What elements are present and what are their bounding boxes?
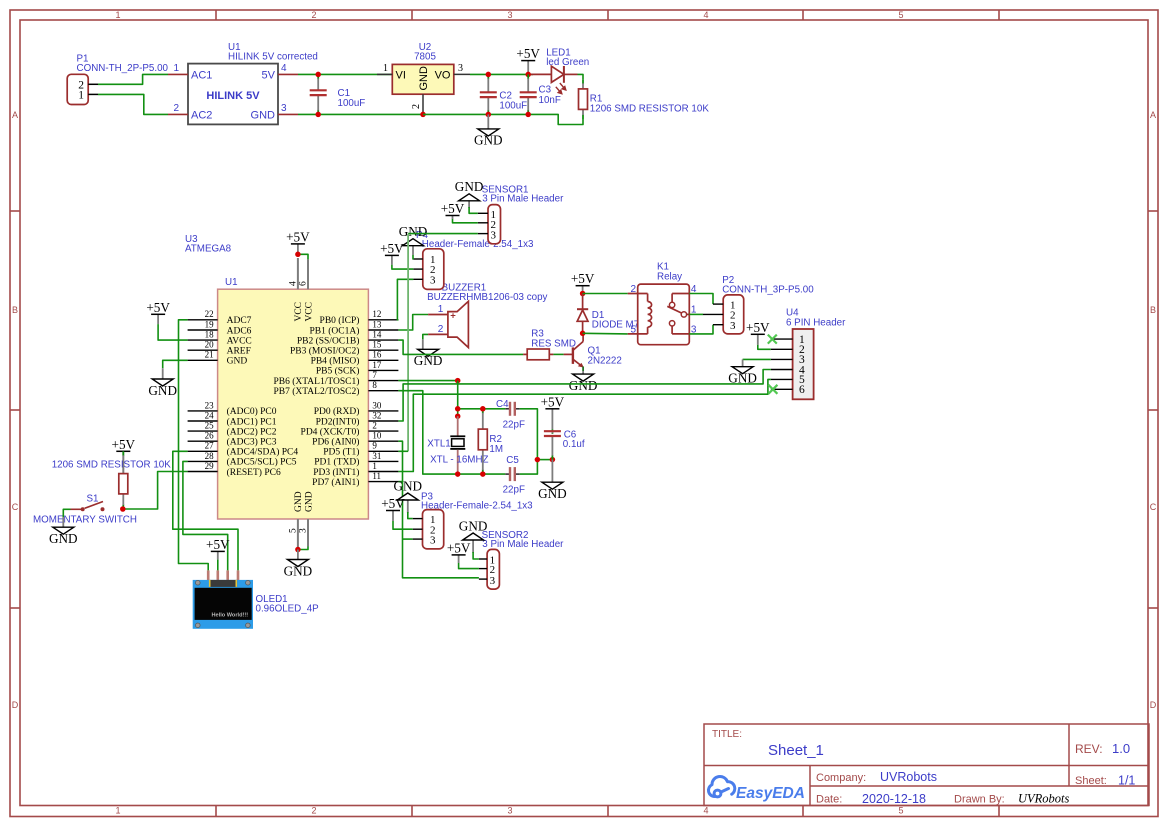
wire RESET pin29 to S1	[123, 472, 188, 510]
regulator module U1	[168, 63, 298, 124]
svg-text:30: 30	[372, 400, 382, 410]
svg-text:22: 22	[205, 309, 214, 319]
no-connect cross U4 pin6	[768, 385, 777, 394]
wire U1.GND rail	[298, 113, 423, 115]
svg-text:PB7 (XTAL2/TOSC2): PB7 (XTAL2/TOSC2)	[274, 386, 360, 397]
ground flag SENSOR2	[459, 518, 488, 553]
svg-text:2: 2	[311, 10, 316, 20]
svg-text:D: D	[1150, 700, 1157, 710]
svg-text:1: 1	[115, 806, 120, 816]
svg-text:12: 12	[372, 309, 381, 319]
no-connect cross U4 pin1	[768, 335, 777, 344]
power flag +5V D1	[571, 271, 595, 293]
svg-text:1: 1	[383, 63, 388, 74]
svg-text:REV:: REV:	[1075, 742, 1103, 756]
connector SENSOR2	[479, 549, 500, 589]
svg-text:A: A	[1150, 110, 1156, 120]
wire buzzer pin2 to gnd	[423, 334, 428, 339]
svg-text:3: 3	[299, 528, 309, 533]
ground flag pin21	[148, 368, 177, 398]
svg-text:15: 15	[372, 340, 382, 350]
svg-text:PD0 (RXD): PD0 (RXD)	[314, 406, 360, 417]
resistor R1	[579, 79, 588, 119]
wire gnd rail right	[423, 114, 583, 124]
svg-text:MOMENTARY SWITCH: MOMENTARY SWITCH	[33, 515, 137, 526]
regulator U2	[377, 63, 470, 114]
svg-text:PB0 (ICP): PB0 (ICP)	[320, 315, 360, 326]
svg-text:VCC: VCC	[305, 302, 315, 322]
svg-text:4: 4	[288, 281, 298, 286]
svg-text:XTL - 16MHZ: XTL - 16MHZ	[430, 454, 488, 465]
svg-text:HILINK 5V: HILINK 5V	[206, 90, 260, 102]
junction R2 bottom	[480, 471, 486, 477]
LED LED1	[531, 66, 578, 94]
ground flag P3	[394, 478, 423, 513]
svg-text:27: 27	[205, 441, 215, 451]
svg-text:C: C	[1150, 502, 1157, 512]
svg-text:1: 1	[78, 90, 84, 102]
svg-text:19: 19	[205, 319, 215, 329]
wire PB0 pin12 to P4 pin3	[397, 279, 413, 320]
junction C1 top	[315, 72, 321, 78]
svg-text:PD5 (T1): PD5 (T1)	[323, 447, 359, 458]
wire C4 right down to C5	[520, 409, 538, 474]
connector P2	[703, 295, 744, 334]
svg-text:VCC: VCC	[294, 302, 304, 322]
svg-text:3 Pin Male Header: 3 Pin Male Header	[482, 539, 564, 550]
svg-text:AC1: AC1	[191, 70, 212, 82]
svg-text:Company:: Company:	[816, 772, 866, 784]
connector P4	[413, 249, 444, 290]
svg-text:led Green: led Green	[546, 57, 589, 68]
svg-text:4: 4	[703, 10, 708, 20]
wire GND pin21	[163, 360, 188, 368]
svg-text:GND: GND	[399, 224, 428, 239]
svg-text:2: 2	[630, 284, 636, 295]
power flag +5V OLED	[206, 537, 230, 560]
wire PB7 pin8 to xtal bottom	[398, 391, 457, 474]
svg-text:20: 20	[205, 340, 215, 350]
svg-text:6: 6	[299, 281, 309, 286]
switch S1	[71, 502, 105, 512]
svg-text:GND: GND	[414, 353, 443, 368]
wire SCL pin28 to OLED pin3	[183, 461, 228, 570]
ground flag C6	[538, 460, 567, 501]
svg-text:+5V: +5V	[381, 496, 405, 511]
wire relay pin3 to P2 pin3	[689, 325, 713, 334]
svg-text:3: 3	[430, 534, 436, 546]
svg-text:+5V: +5V	[146, 300, 170, 315]
power flag +5V SENSOR1	[441, 201, 465, 219]
svg-text:RES SMD: RES SMD	[531, 338, 576, 349]
ground flag SENSOR1	[455, 179, 484, 208]
wire pin7 down to xtal top	[457, 381, 459, 417]
svg-text:HILINK 5V corrected: HILINK 5V corrected	[228, 52, 318, 63]
svg-text:+5V: +5V	[380, 241, 404, 256]
svg-text:C5: C5	[506, 455, 519, 466]
svg-text:PB1 (OC1A): PB1 (OC1A)	[310, 325, 360, 336]
svg-text:PD3 (INT1): PD3 (INT1)	[313, 467, 359, 478]
svg-text:1206 SMD RESISTOR 10K: 1206 SMD RESISTOR 10K	[590, 104, 710, 115]
wire gnd to P3 pin1	[408, 512, 413, 519]
transistor Q1	[564, 333, 584, 371]
svg-text:22pF: 22pF	[503, 484, 525, 495]
svg-text:XTL1: XTL1	[427, 438, 450, 449]
ground flag Q1	[569, 371, 598, 393]
svg-text:Date:: Date:	[816, 794, 842, 806]
resistor R2	[478, 409, 487, 474]
crystal XTL1	[450, 416, 465, 474]
svg-text:PB3 (MOSI/OC2): PB3 (MOSI/OC2)	[290, 346, 359, 357]
wire +5V to U4 pin2	[758, 345, 771, 349]
wire SDA pin27 to OLED pin4	[173, 451, 238, 570]
svg-text:23: 23	[205, 400, 215, 410]
svg-text:GND: GND	[538, 486, 567, 501]
wire U2 out rail	[470, 73, 533, 75]
power flag +5V C6	[541, 394, 565, 429]
svg-text:+5V: +5V	[286, 229, 310, 244]
wire PB1 pin13 to buzzer pin1	[398, 315, 428, 331]
svg-text:GND: GND	[227, 357, 248, 367]
wire P1.2 to U1.AC1	[98, 74, 168, 84]
wire xtal bottom rail	[458, 473, 506, 475]
svg-text:(ADC0) PC0: (ADC0) PC0	[227, 406, 277, 417]
junction C3 bottom	[525, 112, 531, 118]
wire PD6 pin10 bus	[398, 441, 479, 578]
svg-text:PB2 (SS/OC1B): PB2 (SS/OC1B)	[297, 335, 360, 346]
svg-text:21: 21	[205, 350, 214, 360]
svg-text:5: 5	[898, 806, 903, 816]
ground flag buzzer	[422, 339, 424, 350]
junction D1 bottom	[580, 331, 586, 337]
svg-text:+5V: +5V	[516, 46, 540, 61]
ground flag U4	[728, 359, 757, 385]
svg-text:B: B	[12, 305, 18, 315]
junction xtal top	[455, 406, 461, 412]
svg-text:4: 4	[281, 63, 287, 74]
svg-text:9: 9	[372, 441, 377, 451]
svg-text:Header-Female-2.54_1x3: Header-Female-2.54_1x3	[421, 501, 533, 512]
svg-text:11: 11	[372, 471, 381, 481]
wire gnd to SENSOR1 pin1	[469, 207, 478, 213]
svg-text:6 PIN Header: 6 PIN Header	[786, 317, 846, 328]
wire gnd to SENSOR2 pin1	[473, 552, 479, 559]
svg-text:1M: 1M	[489, 444, 503, 455]
svg-text:3: 3	[281, 103, 287, 114]
svg-text:13: 13	[372, 319, 382, 329]
svg-text:0.96OLED_4P: 0.96OLED_4P	[256, 603, 320, 614]
ground flag P4	[399, 224, 428, 255]
capacitor C3	[520, 74, 537, 114]
junction U3 gnd	[295, 547, 301, 553]
svg-text:+5V: +5V	[206, 537, 230, 552]
svg-text:Relay: Relay	[657, 272, 682, 283]
wire P3 pin3 tap	[403, 538, 413, 540]
header U4	[771, 329, 814, 399]
junction C3 top	[525, 72, 531, 78]
svg-text:2: 2	[311, 806, 316, 816]
IC U3 VCC pins 4,6	[288, 258, 314, 322]
wire S1 left to gnd	[63, 509, 70, 517]
svg-text:1: 1	[173, 63, 179, 74]
svg-text:3 Pin Male Header: 3 Pin Male Header	[482, 194, 564, 205]
svg-text:1206 SMD RESISTOR 10K: 1206 SMD RESISTOR 10K	[52, 460, 172, 471]
svg-text:26: 26	[205, 431, 215, 441]
resistor R3	[523, 349, 553, 360]
svg-text:ATMEGA8: ATMEGA8	[185, 244, 232, 255]
svg-text:D: D	[12, 700, 19, 710]
svg-text:3: 3	[491, 230, 497, 242]
junction C6 left	[535, 457, 541, 463]
svg-text:+5V: +5V	[441, 201, 465, 216]
svg-text:+5V: +5V	[112, 437, 136, 452]
svg-text:5: 5	[898, 10, 903, 20]
svg-text:2: 2	[411, 104, 422, 109]
capacitor C1	[310, 74, 327, 114]
wire +5V to SENSOR2 pin2	[459, 563, 479, 569]
svg-text:7: 7	[372, 370, 377, 380]
connector P3	[413, 510, 444, 549]
svg-text:10: 10	[372, 431, 382, 441]
svg-text:2: 2	[372, 421, 377, 431]
svg-text:ADC7: ADC7	[227, 316, 252, 326]
power flag +5V U4	[746, 320, 770, 345]
svg-text:PD6 (AIN0): PD6 (AIN0)	[312, 437, 359, 448]
wire xtal top rail	[458, 408, 506, 410]
svg-text:1/1: 1/1	[1118, 774, 1135, 788]
junction D1 top	[580, 291, 586, 297]
relay K1	[628, 284, 697, 345]
junction xtal bottom	[455, 471, 461, 477]
svg-text:PB5 (SCK): PB5 (SCK)	[316, 366, 360, 377]
power flag +5V above C3	[516, 46, 540, 74]
svg-text:7805: 7805	[414, 52, 436, 63]
svg-text:3: 3	[458, 63, 463, 74]
svg-text:32: 32	[372, 410, 381, 420]
svg-text:GND: GND	[455, 179, 484, 194]
svg-text:PD7 (AIN1): PD7 (AIN1)	[312, 477, 359, 488]
capacitor C4	[505, 402, 520, 416]
svg-text:0.1uf: 0.1uf	[563, 439, 585, 450]
svg-text:PD2(INT0): PD2(INT0)	[316, 416, 360, 427]
svg-text:UVRobots: UVRobots	[1018, 792, 1070, 806]
svg-text:U1: U1	[225, 277, 238, 288]
svg-text:AREF: AREF	[227, 347, 251, 357]
svg-text:1.0: 1.0	[1112, 741, 1130, 756]
wire PD7 pin11 tap	[398, 481, 402, 483]
connector SENSOR1	[478, 205, 501, 244]
svg-text:A: A	[12, 110, 18, 120]
svg-text:CONN-TH_3P-P5.00: CONN-TH_3P-P5.00	[722, 285, 814, 296]
svg-text:3: 3	[507, 806, 512, 816]
capacitor C2	[480, 74, 497, 114]
OLED1 module	[193, 570, 253, 628]
power flag +5V SENSOR2	[447, 540, 471, 563]
junction U2 gnd	[420, 112, 426, 118]
junction C2 top	[486, 72, 492, 78]
svg-text:B: B	[1150, 305, 1156, 315]
IC U3 ATMEGA8 body	[218, 289, 369, 519]
EasyEDA logo	[708, 776, 804, 802]
svg-text:S1: S1	[87, 494, 99, 505]
svg-text:Header-Female-2.54_1x3: Header-Female-2.54_1x3	[422, 239, 534, 250]
svg-text:22pF: 22pF	[503, 419, 525, 430]
svg-text:C: C	[12, 502, 19, 512]
svg-text:EasyEDA: EasyEDA	[736, 785, 805, 802]
svg-text:(RESET) PC6: (RESET) PC6	[227, 467, 281, 478]
wire PB6 pin7 to crystal	[398, 380, 457, 382]
frame column numbers	[115, 10, 903, 816]
svg-text:GND: GND	[569, 378, 598, 393]
wire +5V to relay pin2	[583, 293, 628, 295]
diode D1	[577, 294, 588, 334]
svg-text:UVRobots: UVRobots	[880, 770, 937, 784]
svg-text:VO: VO	[435, 70, 451, 82]
svg-text:18: 18	[205, 330, 215, 340]
svg-text:17: 17	[372, 360, 382, 370]
svg-text:Sheet:: Sheet:	[1075, 775, 1107, 787]
svg-text:AVCC: AVCC	[227, 336, 252, 346]
wire SENSOR1 pin3 to PD5 pin9	[398, 234, 477, 452]
svg-text:PB4 (MISO): PB4 (MISO)	[311, 356, 360, 367]
svg-text:14: 14	[372, 330, 382, 340]
svg-text:+5V: +5V	[541, 394, 565, 409]
svg-text:8: 8	[372, 380, 377, 390]
ground flag below C2	[474, 114, 503, 147]
svg-text:Hello World!!!: Hello World!!!	[212, 613, 249, 619]
wire gnd to P4 pin1	[412, 255, 414, 259]
power flag +5V P4	[380, 241, 404, 265]
svg-text:2020-12-18: 2020-12-18	[862, 792, 926, 806]
junction pin7	[455, 378, 461, 384]
svg-text:2N2222: 2N2222	[588, 356, 622, 367]
svg-text:(ADC1) PC1: (ADC1) PC1	[227, 416, 277, 427]
svg-text:BUZZERHMB1206-03 copy: BUZZERHMB1206-03 copy	[427, 292, 547, 303]
svg-text:2: 2	[173, 103, 179, 114]
svg-text:6: 6	[799, 384, 805, 396]
svg-text:PD4 (XCK/T0): PD4 (XCK/T0)	[301, 426, 360, 437]
svg-text:5V: 5V	[262, 70, 276, 82]
wire +5V to SENSOR1 pin2	[453, 219, 478, 223]
svg-text:GND: GND	[459, 518, 488, 533]
svg-text:GND: GND	[49, 531, 78, 546]
wire U4 pin5 to PD3 pin1	[398, 379, 771, 471]
connector P1	[67, 74, 98, 104]
wire LED1 to R1	[578, 74, 584, 79]
resistor 10K pull-up	[119, 451, 128, 509]
svg-text:GND: GND	[251, 110, 276, 122]
svg-text:(ADC3) PC3: (ADC3) PC3	[227, 437, 277, 448]
svg-text:31: 31	[372, 451, 381, 461]
svg-text:1: 1	[438, 304, 444, 315]
svg-text:+5V: +5V	[447, 540, 471, 555]
svg-text:1: 1	[115, 10, 120, 20]
svg-text:PB6 (XTAL1/TOSC1): PB6 (XTAL1/TOSC1)	[274, 376, 360, 387]
wire D1 to relay pin5	[583, 332, 628, 335]
svg-text:100uF: 100uF	[338, 98, 366, 109]
svg-text:+5V: +5V	[571, 271, 595, 286]
svg-text:Drawn By:: Drawn By:	[954, 794, 1005, 806]
junction R2 top	[480, 406, 486, 412]
svg-text:(ADC5/SCL) PC5: (ADC5/SCL) PC5	[227, 457, 297, 468]
svg-text:GND: GND	[148, 383, 177, 398]
svg-text:5: 5	[288, 528, 298, 533]
wire relay pin4 to P2 pin1	[689, 294, 713, 305]
svg-text:2: 2	[438, 324, 444, 335]
ground flag S1	[49, 517, 78, 546]
svg-text:4: 4	[703, 806, 708, 816]
junction C2 bottom	[486, 112, 492, 118]
power flag +5V AVCC	[146, 300, 170, 324]
buzzer BUZZER1	[428, 301, 468, 347]
wire gnd pins	[298, 547, 308, 550]
wire ADC7 pin22 to OLED pin1	[179, 320, 209, 571]
svg-text:VI: VI	[396, 70, 406, 82]
svg-text:GND: GND	[294, 491, 304, 512]
ground flag below U3	[284, 550, 313, 579]
svg-text:16: 16	[372, 350, 382, 360]
wire PB2 pin14 to R3	[398, 340, 523, 354]
power flag +5V above U3	[286, 229, 310, 254]
svg-text:(ADC2) PC2: (ADC2) PC2	[227, 426, 277, 437]
wire +5V to AVCC pin18	[158, 324, 188, 340]
wire U1.5V rail	[298, 73, 392, 75]
svg-text:PD1 (TXD): PD1 (TXD)	[314, 457, 359, 468]
title block	[704, 724, 1149, 806]
svg-text:AC2: AC2	[191, 110, 212, 122]
svg-text:CONN-TH_2P-P5.00: CONN-TH_2P-P5.00	[77, 63, 169, 74]
svg-text:3: 3	[507, 10, 512, 20]
svg-text:GND: GND	[305, 491, 315, 512]
svg-text:25: 25	[205, 421, 215, 431]
svg-text:GND: GND	[394, 478, 423, 493]
junction C6	[550, 457, 556, 463]
junction U3 vcc	[295, 252, 301, 257]
wire P1.1 to U1.AC2	[98, 94, 168, 114]
svg-text:29: 29	[205, 461, 215, 471]
svg-text:28: 28	[205, 451, 215, 461]
svg-text:GND: GND	[284, 563, 313, 578]
power flag +5V P3	[381, 496, 405, 521]
svg-text:3: 3	[490, 575, 496, 587]
svg-text:100uF: 100uF	[499, 100, 527, 111]
junction xtal lead	[455, 413, 461, 419]
capacitor C5	[505, 467, 520, 481]
capacitor C6	[544, 429, 561, 459]
wire +5V to P4 pin2	[392, 265, 413, 269]
wire vcc pins	[298, 254, 308, 259]
junction S1	[120, 506, 126, 512]
wire U4 pin4 to PD2 pin32	[398, 370, 771, 422]
svg-text:GND: GND	[418, 66, 430, 91]
svg-text:C4: C4	[496, 399, 509, 410]
svg-text:GND: GND	[474, 133, 503, 148]
svg-text:(ADC4/SDA) PC4: (ADC4/SDA) PC4	[227, 447, 299, 458]
frame row letters	[12, 110, 1157, 710]
wire xtal group to C6	[537, 459, 552, 461]
wire +5V OLED pin2	[217, 560, 219, 571]
svg-text:Sheet_1: Sheet_1	[768, 742, 824, 759]
svg-text:ADC6: ADC6	[227, 326, 252, 336]
wire R3 to Q1 base	[553, 353, 563, 355]
svg-text:10nF: 10nF	[539, 95, 561, 106]
wire +5V to P3 pin2	[393, 521, 413, 529]
IC U3 pins	[188, 309, 399, 488]
IC U3 GND pins 5,3	[288, 491, 314, 549]
power flag +5V above pull-up	[112, 437, 136, 474]
svg-text:24: 24	[205, 410, 215, 420]
svg-text:3: 3	[730, 320, 736, 332]
